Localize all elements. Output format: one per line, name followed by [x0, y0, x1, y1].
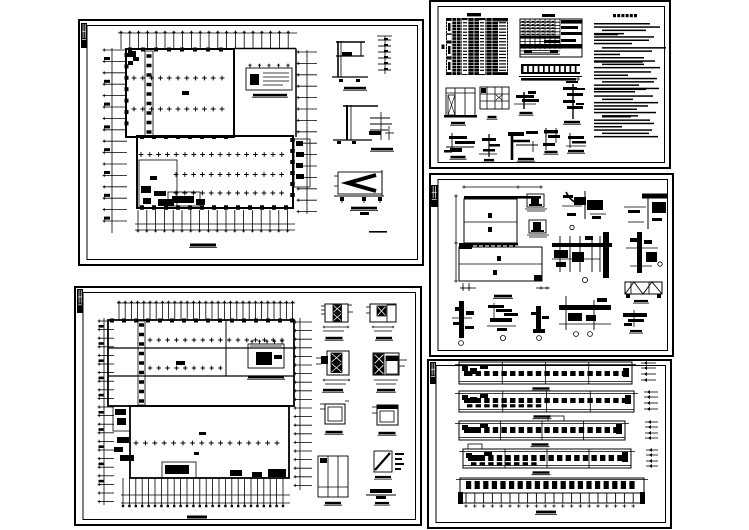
- sheet C door window schedule table: [446, 18, 508, 75]
- sheet D wall section left dim line: [454, 194, 458, 283]
- sheet B roof plan detail r3c2: [372, 405, 398, 425]
- sheet E elevation 4 facade verticals: [505, 449, 589, 468]
- sheet A ramp detail right of lower hall: [294, 139, 310, 187]
- sheet C bottom detail 2: [479, 134, 500, 157]
- sheet C bottom detail 1 label: [450, 156, 467, 159]
- sheet D (wall sections and details) title strip: [431, 185, 438, 207]
- sheet E elevation 1 outline: [455, 362, 636, 384]
- sheet A stair cluster bottom: [168, 192, 205, 206]
- sheet B stair core detail r2c1 label: [322, 389, 344, 392]
- sheet D wall section top dim ticks: [462, 185, 543, 189]
- sheet A stair section detail 2 label: [370, 148, 394, 151]
- sheet A (first floor plan) outer border: [79, 20, 423, 265]
- sheet E elevation 3 level marks: [645, 420, 658, 440]
- sheet A upper hall top wall columns: [128, 48, 223, 52]
- sheet C door elevation detail: [444, 88, 477, 118]
- sheet B left dimension line: [103, 318, 105, 505]
- sheet D wall section bottom dim: [460, 283, 550, 291]
- sheet B plan title: [186, 516, 208, 520]
- sheet B roof stair plan detail: [248, 340, 284, 368]
- sheet B upper room crosses row 1: [148, 338, 284, 342]
- sheet D bottom detail 3: [531, 306, 549, 340]
- sheet D truss label: [633, 300, 649, 303]
- sheet E elevation 1 label: [532, 387, 551, 390]
- sheet A upper hall outline: [126, 49, 234, 137]
- sheet E elevation 2 left end cluster: [462, 394, 488, 403]
- sheet B left dimension ticks: [98, 319, 114, 503]
- sheet C bottom detail 2 label: [483, 159, 495, 162]
- sheet B stair core detail r1c2: [366, 304, 396, 331]
- sheet A bottom tick feet: [137, 230, 290, 233]
- sheet D wall section lower panel: [459, 247, 542, 281]
- sheet B left dimension text: [99, 325, 104, 482]
- sheet E elevation 1 facade verticals: [502, 362, 589, 384]
- sheet B lower hall right cluster: [252, 469, 286, 477]
- sheet B lower hall top-left stair rooms: [113, 406, 134, 461]
- sheet A bottom dimension ticks: [138, 210, 288, 232]
- sheet A stair flight section detail 3: [334, 170, 384, 203]
- sheet D bottom detail 4 beam seat: [559, 296, 611, 336]
- sheet A bottom dimension lines: [135, 224, 295, 230]
- sheet E elevation 3 label: [531, 443, 550, 446]
- sheet A sheet note mark: [369, 231, 387, 233]
- sheet B section detail r4c1 label: [324, 502, 342, 505]
- sheet E elevation 4 left end cluster: [466, 452, 492, 461]
- sheet A (first floor plan) inner border: [87, 26, 418, 260]
- sheet B upper block wall 1: [108, 347, 294, 349]
- sheet C bottom detail 3 label: [517, 158, 535, 161]
- sheet B small bottom detail r5c2 label: [374, 502, 390, 505]
- sheet B upper block top wall columns: [110, 319, 294, 323]
- sheet B roof plan detail r3c1: [320, 401, 349, 424]
- sheet E elevation 2 facade verticals: [503, 391, 591, 412]
- sheet A left dimension line: [111, 48, 113, 233]
- sheet A left dimension ticks: [103, 48, 127, 222]
- sheet B stair core detail r2c1: [316, 351, 350, 384]
- sheet B lower hall small marks: [194, 432, 206, 455]
- sheet C (schedules and notes) inner border: [438, 7, 665, 163]
- sheet A lower hall left rooms: [139, 160, 177, 208]
- sheet E elevation 1 level marks: [641, 361, 656, 382]
- sheet B (second floor plan) inner border: [83, 293, 416, 520]
- sheet A building top wall right part: [234, 48, 296, 50]
- sheet E elevation 3 window row: [467, 427, 619, 433]
- sheet B bottom dimension band lines: [121, 495, 290, 503]
- sheet B upper block interior wall strip: [138, 321, 145, 405]
- sheet B right dimension line: [299, 318, 301, 490]
- sheet A plan title: [189, 244, 217, 248]
- sheet B (second floor plan) outer border: [75, 287, 421, 525]
- sheet B stair core detail r2c2 label: [376, 389, 396, 392]
- sheet A upper hall column grid row 1: [132, 76, 225, 81]
- sheet A upper hall room label: [182, 91, 189, 95]
- sheet E elevation 3 outline: [455, 421, 629, 440]
- sheet B small bottom detail r5c2: [366, 489, 396, 499]
- sheet E elevation 4 window row: [471, 455, 623, 465]
- sheet A upper hall interior wall: [145, 51, 153, 136]
- sheet B right dimension ticks: [294, 320, 312, 487]
- sheet E elevation 4 outline: [459, 449, 635, 468]
- sheet A lower hall column grid row 3: [174, 191, 284, 196]
- sheet A lower hall column grid row 2: [174, 172, 284, 177]
- sheet C bottom detail 5: [566, 133, 586, 148]
- sheet A mezzanine stair plan label: [252, 94, 288, 97]
- sheet A mid wall columns: [140, 135, 228, 139]
- sheet B stair core detail r1c1 label: [325, 337, 344, 340]
- sheet C door elevation label: [450, 122, 466, 125]
- sheet A left dimension text: [104, 57, 110, 220]
- sheet A stair section detail 1 label: [343, 87, 367, 90]
- sheet E elevation 4 level marks: [646, 448, 658, 468]
- sheet C (schedules and notes) outer border: [430, 1, 670, 168]
- sheet C general notes title: [613, 14, 637, 17]
- sheet C bottom detail 3 corner flashing: [508, 131, 538, 160]
- sheet B upper block wall 2: [108, 375, 294, 377]
- sheet B stair core detail r2c2: [373, 353, 407, 384]
- sheet E (elevations) inner border: [436, 366, 666, 523]
- sheet D column detail middle right: [626, 232, 662, 273]
- sheet D wall section upper panel: [464, 196, 541, 243]
- sheet D beam connection detail middle: [552, 232, 612, 278]
- sheet C general notes text block: [594, 23, 666, 137]
- sheet D truss detail: [625, 282, 662, 298]
- sheet B lower hall outline: [130, 406, 289, 478]
- sheet C lintel schedule table: [520, 19, 582, 57]
- sheet C bottom detail 4 label: [544, 151, 559, 154]
- sheet E section 1-1 base ticks: [464, 504, 635, 508]
- sheet D bottom detail 1: [452, 301, 474, 345]
- sheet A upper hall corner stair cluster: [128, 51, 139, 65]
- sheet E elevation 3 parapet step: [548, 416, 564, 421]
- sheet A right dimension ticks: [297, 50, 317, 213]
- sheet E (elevations) title strip: [430, 362, 436, 384]
- sheet B lower hall crosses row: [134, 441, 280, 446]
- sheet D wall section label: [493, 295, 513, 299]
- sheet C schedule left header: [442, 45, 445, 50]
- sheet C window elevation detail: [480, 87, 509, 109]
- sheet D column base detail 2: [527, 220, 549, 237]
- sheet B plan outline upper block: [108, 320, 294, 406]
- sheet E elevation 4 label: [532, 471, 551, 474]
- sheet B (second floor plan) title strip: [77, 289, 83, 313]
- sheet E elevation 1 right end pier: [623, 368, 629, 377]
- sheet E elevation 2 right end pier: [625, 395, 631, 404]
- sheet B upper room label: [176, 361, 185, 365]
- sheet C bottom detail 4: [543, 128, 560, 150]
- sheet E elevation 4 right end pier: [622, 452, 628, 462]
- sheet A top dimension ticks: [119, 31, 289, 49]
- sheet B section detail r4c1: [318, 456, 348, 497]
- sheet E elevation 2 outline: [455, 391, 638, 412]
- sheet A upper hall left wall columns: [125, 53, 129, 125]
- sheet E elevation 3 right end pier: [616, 424, 622, 434]
- sheet B stair core detail r1c2 label: [375, 337, 393, 340]
- sheet A building right wall upper part: [295, 49, 297, 138]
- sheet C parapet detail: [563, 84, 585, 119]
- sheet B upper room crosses row 2: [148, 366, 223, 370]
- sheet B hatch square detail r4c2 label: [374, 476, 392, 479]
- sheet E (elevations) outer border: [428, 360, 671, 528]
- sheet B top dimension line: [117, 302, 295, 304]
- sheet D beam detail middle label circle: [582, 277, 587, 282]
- sheet E elevation 3 left end cluster: [462, 424, 488, 433]
- sheet A stair flight detail 3 label: [350, 207, 378, 215]
- sheet D gutter detail upper right: [624, 194, 667, 230]
- sheet B top dimension ticks: [117, 301, 294, 320]
- sheet A lower hall right wall columns: [290, 138, 295, 197]
- sheet D gutter detail upper middle: [562, 191, 606, 230]
- sheet D wall section floor band: [459, 243, 518, 249]
- sheet A lower hall bottom wall columns: [140, 205, 288, 210]
- sheet C eave detail label: [519, 112, 534, 115]
- sheet C eave detail: [514, 91, 539, 109]
- sheet E elevation 4 parapet step: [468, 444, 482, 449]
- sheet A right dimension line: [306, 50, 308, 214]
- sheet A lower hall column grid row 1: [139, 152, 285, 157]
- sheet B stair core detail r1c1: [321, 304, 353, 331]
- sheet D bottom detail 2 stair steps: [487, 303, 518, 341]
- sheet A mezzanine stair plan detail: [246, 64, 292, 90]
- sheet A lower hall outline: [137, 136, 293, 208]
- sheet E elevation 1 window row: [467, 371, 627, 376]
- sheet C lintel elevation: [519, 64, 582, 83]
- sheet A top dimension line: [118, 32, 297, 34]
- sheet C bottom detail 1: [444, 133, 475, 153]
- sheet E elevation 2 level marks: [644, 390, 658, 411]
- sheet E elevation 2 window row: [467, 398, 627, 407]
- sheet E elevation 2 label: [533, 415, 552, 418]
- sheet C parapet detail label: [563, 121, 581, 124]
- sheet D (wall sections and details) outer border: [430, 174, 673, 356]
- sheet B roof plan detail r3c2 label: [378, 432, 397, 435]
- sheet A stair section detail 1: [332, 36, 392, 82]
- sheet D bottom detail 5 label: [629, 330, 643, 333]
- sheet B bottom dimension ticks: [123, 478, 283, 506]
- sheet D (wall sections and details) inner border: [438, 180, 668, 351]
- sheet E section 1-1 band: [456, 478, 648, 493]
- sheet C bottom detail 5 label: [567, 150, 585, 153]
- sheet D column base detail 1: [525, 194, 547, 211]
- sheet E section 1-1 colonnade: [458, 492, 645, 504]
- sheet E elevation 1 left end cluster: [462, 365, 488, 376]
- sheet C door window schedule title: [467, 13, 481, 16]
- sheet B lower hall bottom stair cluster: [162, 462, 242, 478]
- sheet A stair section detail 2: [333, 105, 394, 144]
- sheet A (first floor plan) title strip: [81, 23, 87, 48]
- sheet E section 1-1 label: [535, 511, 557, 515]
- sheet E elevation 3 facade verticals: [501, 421, 584, 440]
- sheet B upper block partition: [225, 320, 227, 376]
- sheet B roof plan detail r3c1 label: [325, 431, 344, 434]
- sheet C window elevation label: [487, 116, 498, 119]
- sheet B hatch square detail r4c2: [374, 451, 404, 472]
- sheet C lintel schedule title: [542, 14, 555, 17]
- sheet B bottom tick feet: [122, 505, 284, 507]
- sheet D bottom detail 5: [623, 310, 647, 327]
- sheet A upper hall column grid row 2: [132, 107, 225, 112]
- sheet B roof stair plan label: [247, 376, 285, 379]
